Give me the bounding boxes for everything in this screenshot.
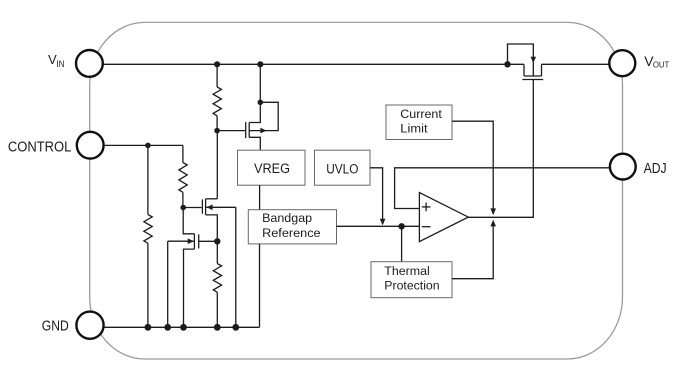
svg-text:Reference: Reference <box>262 226 321 240</box>
transistor M1 <box>217 102 278 150</box>
node gnd R2 <box>145 324 152 331</box>
node R1-M1 gate <box>214 128 220 134</box>
block current limit <box>386 105 452 140</box>
node rail-M1 <box>257 61 263 67</box>
node gnd M2 bulk <box>232 324 239 331</box>
resistor R2 <box>144 145 152 327</box>
resistor R1 <box>213 64 221 130</box>
wire VIN rail right <box>542 63 610 65</box>
wire op-amp output <box>468 80 533 218</box>
svg-text:Current: Current <box>400 107 442 121</box>
node gnd M3 bulk <box>164 324 171 331</box>
wire rail to M1 drain <box>259 64 261 102</box>
svg-text:OUT: OUT <box>653 60 670 70</box>
resistor R4 <box>213 241 221 327</box>
block VREG <box>238 150 306 185</box>
svg-text:IN: IN <box>56 59 64 69</box>
wire ADJ feedback to plus input <box>395 168 610 209</box>
svg-text:GND: GND <box>42 319 69 335</box>
svg-text:ADJ: ADJ <box>644 161 667 177</box>
wire bandgap to minus input <box>337 225 420 227</box>
wire R1 node to M2 drain <box>216 131 218 199</box>
node gnd R4 <box>214 324 221 331</box>
node gnd M3 source <box>180 324 187 331</box>
node M1 drain <box>258 100 264 106</box>
wire GND rail <box>104 326 260 328</box>
node rail-R1 <box>214 61 220 67</box>
wire node to thermal protection <box>401 226 403 261</box>
svg-text:VREG: VREG <box>254 161 290 177</box>
pin VIN <box>76 50 103 77</box>
svg-text:CONTROL: CONTROL <box>8 139 72 155</box>
block bandgap reference <box>248 210 336 244</box>
node minus-TP <box>398 223 404 229</box>
pin GND <box>76 312 103 339</box>
pin ADJ <box>610 154 636 180</box>
wire VIN rail left <box>103 63 524 65</box>
wire VREG to bandgap <box>259 185 261 210</box>
resistor R3 <box>179 145 187 207</box>
transistor M2 <box>183 199 236 327</box>
wire current limit output <box>452 121 496 215</box>
svg-text:Bandgap: Bandgap <box>262 211 312 225</box>
node M3 gate <box>214 238 220 244</box>
svg-text:Limit: Limit <box>400 122 428 136</box>
transistor Q1 pass PMOS <box>508 44 544 80</box>
op-amp U1 <box>419 193 468 242</box>
pin VOUT <box>609 50 635 76</box>
node CONTROL-R2 <box>145 143 151 149</box>
block thermal protection <box>371 262 452 298</box>
svg-text:Protection: Protection <box>384 279 439 293</box>
IC boundary <box>90 22 623 359</box>
wire bandgap gnd <box>259 244 261 327</box>
node M2 gate <box>180 205 186 211</box>
transistor M3 <box>168 208 218 328</box>
block UVLO <box>315 150 371 185</box>
pin CONTROL <box>77 132 104 159</box>
wire CONTROL <box>105 144 183 146</box>
node rail-Q1 bulk <box>504 61 510 67</box>
wire UVLO output <box>370 168 385 226</box>
wire thermal protection output <box>452 220 496 279</box>
svg-text:UVLO: UVLO <box>326 162 358 178</box>
svg-text:Thermal: Thermal <box>384 264 430 278</box>
